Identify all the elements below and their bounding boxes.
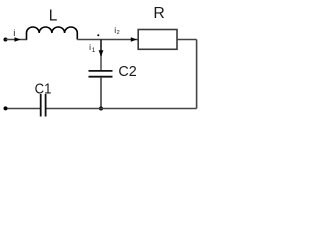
wire junction down to C2 (arrow shaft) — [100, 40, 102, 57]
inductor L — [27, 27, 78, 40]
junction dot bottom — [99, 107, 103, 111]
bottom rail left of C1 — [6, 108, 41, 110]
svg-text:C1: C1 — [35, 80, 52, 97]
wire right vertical — [196, 40, 198, 109]
svg-text:C2: C2 — [118, 63, 136, 80]
svg-text:1: 1 — [92, 47, 96, 54]
wire arrow to C2 top plate — [100, 56, 102, 70]
current arrow i1 (down) — [99, 50, 104, 56]
current arrow i2 — [131, 37, 137, 41]
resistor R — [138, 30, 177, 50]
capacitor C1 left plate — [40, 94, 42, 117]
capacitor C1 right plate — [45, 94, 47, 117]
capacitor C2 top plate — [89, 70, 113, 72]
bottom rail right of C1 — [46, 108, 197, 110]
wire C2 to bottom rail — [100, 78, 102, 109]
wire input to inductor — [6, 39, 28, 41]
svg-text:2: 2 — [117, 30, 120, 36]
svg-text:i: i — [13, 28, 15, 39]
node marker dot — [97, 34, 99, 36]
wire inductor to resistor — [77, 39, 138, 41]
input terminal (bottom) — [4, 106, 8, 110]
current arrow i — [15, 37, 21, 41]
wire resistor to right corner — [177, 39, 197, 41]
svg-text:R: R — [153, 5, 164, 22]
svg-text:L: L — [49, 8, 58, 25]
capacitor C2 bottom plate — [89, 76, 113, 78]
input terminal (top) — [4, 38, 8, 42]
